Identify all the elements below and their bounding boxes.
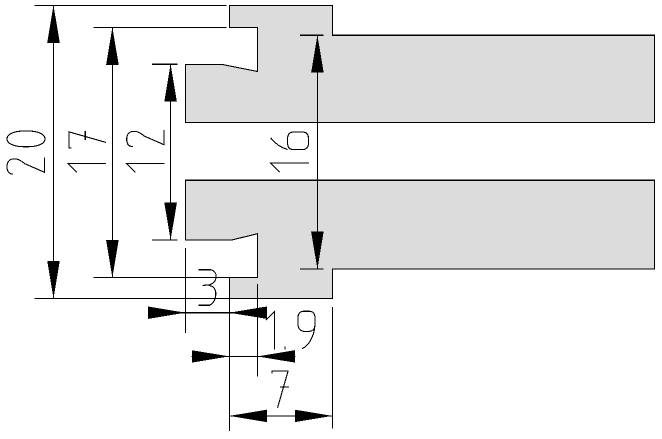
dim 20 extension line top — [34, 4, 226, 6]
dim 17 extension line bottom — [94, 277, 230, 279]
label 1.9 — [266, 311, 275, 349]
dim 12 tick bottom — [152, 239, 178, 241]
dim 12 arrow down — [164, 203, 177, 241]
label 16 (rotated) — [271, 163, 309, 172]
dim 3 dimension line — [148, 312, 267, 314]
dim 1.9 extension line right — [256, 284, 258, 376]
dim 12 dimension line — [170, 64, 172, 240]
dim 16 tick bottom — [300, 268, 324, 270]
dim 7 arrow left (points left, tip at 229.3) — [229, 410, 266, 422]
dim 1.9 dimension line — [191, 355, 295, 357]
label 12 (rotated) — [127, 164, 165, 173]
dim 3 extension line left — [185, 248, 187, 333]
dim 7 extension line right — [331, 307, 333, 429]
label 17 (rotated) — [68, 164, 106, 173]
dim 1.9 arrow left (points right, tip at 229.3) — [192, 350, 230, 362]
label 20 (rotated) — [7, 158, 44, 175]
dim 12 arrow up — [164, 64, 177, 102]
dim 1.9 arrow right (points left, tip at 257.4) — [257, 350, 295, 362]
dim 16 dimension line — [316, 35, 318, 269]
dim 7 arrow right (points right, tip at 332.4) — [295, 410, 333, 422]
dim 16 arrow up — [311, 35, 324, 72]
dim 7 dimension line — [229, 415, 332, 417]
dim 17 extension line top — [94, 26, 227, 28]
dim 17 arrow down — [106, 240, 119, 278]
dim 3 arrow left (points right, tip at 185.5) — [148, 307, 186, 319]
dim 20 arrow down — [47, 261, 60, 299]
part cross-section: upper gray polygon — [186, 5, 655, 122]
dim 20 dimension line — [53, 5, 55, 298]
label 7 — [272, 371, 289, 408]
dim 12 tick top — [152, 63, 178, 65]
dim 3 arrow right (points left, tip at 229.3) — [229, 307, 266, 319]
dim 20 arrow up — [47, 5, 60, 43]
part cross-section: lower gray polygon — [186, 180, 655, 298]
dim 16 tick top — [300, 34, 324, 36]
dim 20 extension line bottom — [34, 297, 229, 299]
dim 17 dimension line — [111, 27, 113, 277]
dim 17 arrow up — [106, 27, 119, 65]
dim 16 arrow down — [311, 232, 324, 270]
dim 3/1.9/7 shared extension line — [228, 298, 230, 431]
label 3 — [199, 270, 217, 306]
